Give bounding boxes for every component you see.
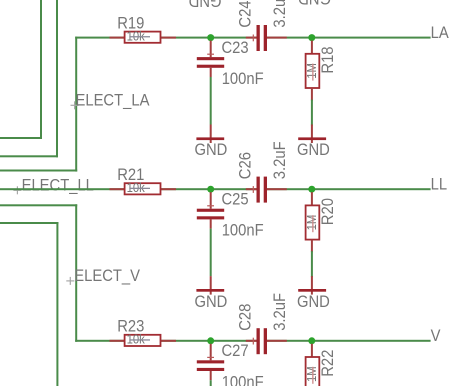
wire: net row V right segment (267, 340, 431, 342)
ground for C25 (195, 276, 228, 311)
wire: bottom-left horizontal net from left edge (0, 222, 58, 224)
net label LL (431, 176, 448, 194)
ground for R18 (297, 125, 330, 160)
wire: horizontal net segment to left edge 1 (0, 137, 42, 139)
net label LA (431, 24, 449, 42)
wire: net row LA right segment (267, 37, 431, 39)
wire: net row LL right segment (267, 188, 431, 190)
wire: vertical net segment top-left 1 (40, 0, 42, 139)
net label ELECT_V (66, 267, 140, 285)
wire: net row V left segment (75, 340, 257, 342)
capacitor C24 3.2uF (237, 0, 290, 51)
wire: net ELECT_LA horizontal segment to left edge (0, 170, 77, 172)
net label ELECT_LA (71, 91, 150, 109)
node: junction LL/C25 (207, 186, 214, 193)
svg-text:GND: GND (195, 141, 228, 159)
capacitor C23 100nF (197, 39, 264, 88)
net label ELECT_LL (13, 177, 94, 195)
svg-text:100nF: 100nF (222, 373, 264, 386)
ground (cut off at top edge, right) (298, 0, 331, 7)
svg-text:GND: GND (298, 0, 331, 7)
wire: net row LL left segment (0, 188, 257, 190)
svg-text:C27: C27 (222, 342, 249, 360)
capacitor C26 3.2uF (237, 141, 290, 202)
svg-text:R20: R20 (319, 198, 337, 225)
resistor R23 10k (110, 318, 177, 347)
svg-text:R22: R22 (319, 350, 337, 377)
svg-text:V: V (431, 327, 441, 345)
resistor R19 10k (110, 14, 177, 43)
svg-text:1M: 1M (304, 63, 319, 79)
svg-text:GND: GND (297, 141, 330, 159)
svg-text:LA: LA (431, 24, 449, 42)
svg-text:C28: C28 (237, 304, 255, 331)
svg-text:3.2uF: 3.2uF (271, 141, 289, 179)
svg-text:100nF: 100nF (222, 222, 264, 240)
wire: vertical net segment top-left 2 (56, 0, 58, 157)
wire: net ELECT_LA vertical segment (75, 37, 77, 172)
capacitor C27 100nF (197, 342, 264, 386)
node: junction LA/R18 (308, 34, 315, 41)
svg-text:LL: LL (431, 176, 448, 194)
svg-text:C25: C25 (222, 191, 249, 209)
node: junction LA/C23 (207, 34, 214, 41)
svg-text:1M: 1M (304, 366, 319, 382)
ground for R20 (297, 276, 330, 311)
capacitor C25 100nF (197, 191, 264, 240)
wire: net ELECT_V horizontal segment from left edge (0, 204, 77, 206)
wire: R18 to ground (311, 100, 313, 126)
wire: C25 to ground (210, 229, 212, 277)
svg-text:GND: GND (195, 293, 228, 311)
svg-text:ELECT_LL: ELECT_LL (22, 177, 94, 195)
node: junction V/R22 (308, 337, 315, 344)
ground (cut off at top edge, left) (189, 0, 222, 9)
node: junction LL/R20 (308, 186, 315, 193)
wire: C23 to ground (210, 77, 212, 125)
net label V (431, 327, 441, 345)
svg-text:100nF: 100nF (222, 70, 264, 88)
wire: net row LA left segment (75, 37, 257, 39)
svg-text:C23: C23 (222, 39, 249, 57)
svg-text:3.2uF: 3.2uF (271, 293, 289, 331)
wire: bottom-left vertical net to bottom edge (56, 222, 58, 386)
wire: horizontal net segment to left edge 2 (0, 155, 58, 157)
ground for C23 (195, 125, 228, 160)
svg-text:GND: GND (297, 293, 330, 311)
svg-text:C26: C26 (237, 152, 255, 179)
resistor R18 1M (304, 41, 337, 101)
wire: net ELECT_V vertical segment (75, 204, 77, 341)
resistor R21 10k (110, 166, 177, 195)
svg-text:ELECT_LA: ELECT_LA (76, 91, 150, 109)
capacitor C28 3.2uF (237, 293, 290, 354)
svg-text:3.2uF: 3.2uF (271, 0, 289, 28)
resistor R22 1M (304, 344, 337, 386)
node: junction V/C27 (207, 337, 214, 344)
svg-text:1M: 1M (304, 215, 319, 231)
svg-text:C24: C24 (237, 0, 255, 27)
svg-text:R18: R18 (319, 46, 337, 73)
resistor R20 1M (304, 192, 337, 252)
wire: R20 to ground (311, 251, 313, 277)
svg-text:GND: GND (189, 0, 222, 9)
svg-text:ELECT_V: ELECT_V (74, 267, 140, 285)
wire: C27 to ground (210, 380, 212, 386)
